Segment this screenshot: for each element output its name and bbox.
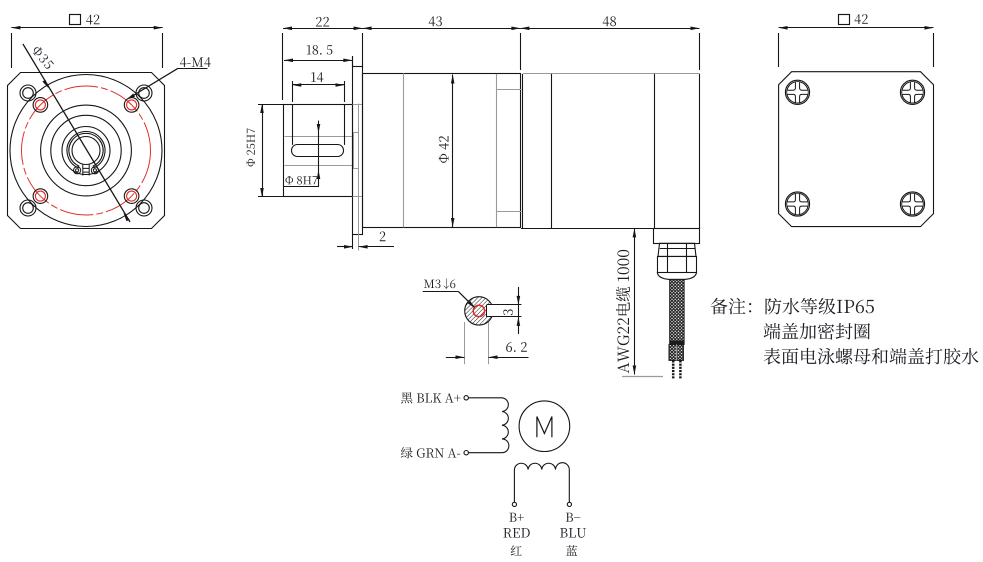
cable braid lower	[669, 344, 683, 360]
dim 3 label	[503, 309, 513, 315]
front dim text sq42	[70, 15, 81, 25]
terminal B+	[512, 502, 516, 506]
phi42 dim line	[452, 75, 454, 228]
dim 6.2	[446, 357, 465, 359]
gland dome	[657, 272, 696, 279]
dim 43	[363, 28, 521, 30]
gland facets	[667, 244, 669, 273]
note line 2	[764, 323, 870, 340]
phi25H7 label	[247, 128, 255, 166]
label BLU	[560, 528, 586, 538]
front dim ext lines	[11, 33, 13, 68]
cable label AWG22	[616, 250, 630, 373]
label B-	[566, 513, 580, 522]
rear dim text sq42	[839, 15, 850, 25]
rear screw 4	[900, 192, 924, 216]
phase A coil	[469, 398, 509, 453]
phi35 label	[31, 45, 54, 70]
shaft cylinder	[284, 105, 353, 197]
front view flange square outline	[8, 73, 165, 229]
dim 22 ext lines	[282, 33, 284, 100]
M4 tapped hole 2	[124, 98, 139, 113]
corner mounting hole ring 1	[20, 85, 36, 101]
dim 14 ext lines	[292, 81, 294, 102]
gearbox body	[363, 74, 521, 228]
4-M4 leader	[129, 68, 179, 98]
dim 18.5	[284, 60, 352, 62]
motor internal line 1	[551, 74, 553, 229]
label GRN A-	[401, 447, 460, 458]
circlip ear hole right	[93, 169, 96, 172]
dim 48	[520, 28, 699, 30]
cable braid	[670, 279, 684, 344]
front dim line sq42	[11, 27, 162, 29]
label RED	[503, 528, 529, 538]
note line 3	[764, 348, 979, 365]
phi25H7 dim line	[262, 104, 264, 197]
detail red circle M3	[473, 305, 484, 316]
corner mounting hole ring 3	[20, 200, 36, 216]
wire left	[672, 360, 675, 378]
motor internal line 2	[654, 74, 656, 229]
label lan	[566, 545, 577, 556]
rear cover square	[779, 72, 934, 227]
detail hatched circle	[465, 297, 493, 325]
gearbox internal line (gray)	[403, 73, 405, 227]
rear dim line sq42	[779, 27, 934, 29]
motor letter M	[537, 417, 552, 438]
phi35 dim line	[23, 44, 130, 222]
shaft bore (gray)	[285, 136, 353, 138]
detail notch	[487, 305, 496, 317]
label hong	[511, 545, 522, 555]
note line 1	[711, 298, 874, 315]
motor body outline	[522, 74, 524, 229]
front inner boss circle	[51, 115, 121, 185]
M4 tapped hole 3	[33, 189, 48, 204]
rear screw 1	[785, 80, 809, 104]
corner mounting hole ring 2	[136, 85, 152, 101]
label B+	[509, 513, 523, 522]
front hub circle	[62, 127, 110, 175]
cable crimp band	[670, 341, 684, 345]
rear screw 3	[785, 192, 809, 216]
dim 22	[283, 28, 363, 30]
circlip ear left	[74, 167, 81, 174]
circlip outer arc	[67, 132, 105, 168]
rear view dim ext lines	[778, 33, 780, 67]
gland upper nut	[658, 243, 696, 256]
rear screw 2	[900, 80, 924, 104]
phi8H7 dim line	[318, 121, 320, 187]
phi8H7 label	[285, 176, 317, 184]
phi25H7 dim ext	[258, 104, 284, 106]
phi42 label	[439, 136, 449, 163]
dim 18.5 ext line	[352, 56, 354, 66]
M3 leader	[458, 291, 474, 307]
motor pilot gray lines	[496, 89, 521, 91]
wire right	[679, 360, 682, 378]
terminal A+	[464, 396, 468, 400]
M3 depth label	[424, 279, 440, 288]
terminal B-	[567, 502, 571, 506]
circlip ear right	[91, 167, 98, 174]
shaft bore circle	[72, 137, 100, 165]
M4 tapped hole 1	[33, 98, 48, 113]
dim 43 ext line	[520, 33, 522, 70]
gearbox rear gray line	[496, 74, 498, 227]
shaft slot	[292, 145, 344, 157]
circlip outer arc 2	[69, 133, 103, 166]
4-M4 label	[180, 57, 211, 67]
mounting flange plate	[353, 67, 363, 235]
dim 14	[292, 84, 344, 86]
red bolt circle phi35 (dashed)	[22, 86, 151, 215]
front gearbox boss circle	[41, 105, 132, 196]
circlip ear hole left	[76, 169, 79, 172]
hidden shaft edge stubs	[353, 104, 363, 106]
phase B coil	[514, 463, 569, 503]
dim 6.2 ext lines	[464, 322, 466, 364]
dim 2	[337, 246, 353, 248]
label BLK A+	[401, 392, 460, 403]
circlip bridge	[83, 164, 89, 176]
flange gray tab	[354, 133, 359, 169]
dim 48 ext line	[699, 33, 701, 70]
M4 tapped hole 4	[124, 189, 139, 204]
dim 3 line	[518, 287, 520, 334]
gland lower nut	[658, 257, 697, 273]
cable dim line	[634, 228, 636, 374]
front view motor body circle	[10, 75, 162, 227]
corner mounting hole ring 4	[136, 200, 152, 216]
terminal A-	[464, 451, 468, 455]
motor circle M	[519, 401, 570, 452]
shaft slot walls	[292, 104, 294, 145]
gland flange	[654, 229, 700, 244]
